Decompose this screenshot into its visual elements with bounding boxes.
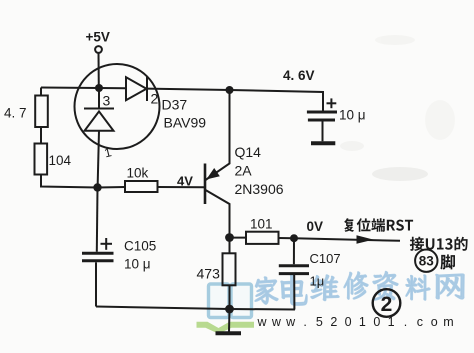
svg-text:0: 0 bbox=[345, 315, 352, 329]
dual diode D37 package circle bbox=[75, 64, 160, 149]
node F junction bbox=[290, 234, 298, 242]
watermark url www.520101.com bbox=[256, 315, 453, 329]
wire 473 to ground node bbox=[229, 285, 231, 309]
wire +5V down to rail bbox=[98, 53, 100, 88]
resistor 101 bbox=[246, 232, 279, 244]
svg-text:2: 2 bbox=[330, 315, 337, 329]
svg-text:104: 104 bbox=[49, 153, 72, 168]
wire top rail right segment bbox=[147, 89, 323, 111]
svg-text:2: 2 bbox=[151, 91, 159, 107]
svg-text:5: 5 bbox=[316, 315, 323, 329]
Q14 emitter bbox=[206, 90, 230, 180]
wire collector node to 473 bbox=[229, 238, 231, 254]
svg-text:.: . bbox=[303, 315, 306, 329]
transistor Q14 base bar bbox=[204, 164, 207, 205]
wire node B to 10k bbox=[98, 186, 126, 189]
ground bar under 10μ bbox=[311, 141, 335, 145]
svg-text:w: w bbox=[285, 315, 296, 329]
svg-text:10k: 10k bbox=[127, 166, 149, 181]
diode D37 lower half (pin1 to pin3) bbox=[84, 108, 114, 110]
wire C105 to bottom rail bbox=[95, 262, 97, 306]
node B junction bbox=[93, 183, 101, 191]
wire 101 to node F bbox=[279, 237, 295, 239]
wire 10k to base bbox=[158, 186, 205, 188]
pin 83 circle bbox=[415, 250, 437, 272]
脚 label bbox=[440, 254, 455, 269]
svg-text:Q14: Q14 bbox=[235, 144, 262, 160]
wire collector node to 101 bbox=[230, 237, 247, 239]
svg-text:101: 101 bbox=[250, 217, 273, 232]
Q14 collector bbox=[206, 190, 230, 238]
svg-text:c: c bbox=[417, 315, 423, 329]
svg-text:473: 473 bbox=[197, 266, 221, 282]
svg-text:+5V: +5V bbox=[86, 30, 110, 45]
resistor 104 bbox=[35, 144, 48, 175]
接U13的 label bbox=[410, 237, 468, 251]
resistor 473 bbox=[223, 253, 236, 285]
svg-text:0V: 0V bbox=[307, 219, 324, 234]
resistor 10k bbox=[125, 181, 158, 192]
svg-text:m: m bbox=[443, 315, 453, 329]
wire pin3 down through diode bbox=[98, 88, 100, 109]
RST arrowhead bbox=[357, 235, 374, 244]
node collector junction bbox=[225, 233, 234, 242]
svg-text:4V: 4V bbox=[177, 174, 193, 189]
svg-text:1: 1 bbox=[359, 315, 366, 329]
wire top rail left segment bbox=[41, 87, 126, 90]
diode D37 right half (pin3 to pin2) bbox=[126, 77, 147, 100]
svg-text:w: w bbox=[271, 315, 282, 329]
wire 104 to node B bbox=[41, 175, 98, 188]
wire C107 to bottom rail bbox=[293, 275, 295, 310]
svg-text:o: o bbox=[431, 315, 438, 329]
wire 10μ to ground bbox=[322, 122, 324, 142]
svg-text:10 μ: 10 μ bbox=[339, 108, 366, 123]
复位端RST label bbox=[344, 218, 413, 232]
bottom rail wire bbox=[96, 307, 295, 310]
svg-text:.: . bbox=[404, 315, 407, 329]
Q14 emitter arrow (PNP) bbox=[208, 169, 220, 179]
svg-text:BAV99: BAV99 bbox=[164, 115, 207, 131]
svg-text:83: 83 bbox=[419, 254, 435, 269]
svg-text:2N3906: 2N3906 bbox=[235, 181, 284, 197]
ground bar bbox=[216, 331, 242, 335]
watermark book logo bbox=[197, 284, 255, 334]
capacitor 10μ plus sign bbox=[327, 102, 337, 104]
wire to ground bbox=[228, 309, 231, 332]
capacitor C107 bbox=[279, 264, 309, 267]
resistor 4.7 bbox=[35, 96, 48, 128]
capacitor 10μ top right bbox=[307, 111, 337, 114]
wire RST output bbox=[294, 238, 400, 241]
svg-text:0: 0 bbox=[373, 315, 380, 329]
scan smudges bbox=[340, 35, 455, 181]
figure number 2 circled bbox=[373, 289, 401, 317]
svg-text:1μ: 1μ bbox=[310, 274, 325, 289]
svg-text:3: 3 bbox=[103, 93, 111, 109]
node junction at pin3 bbox=[95, 84, 103, 92]
svg-text:C107: C107 bbox=[310, 251, 341, 266]
svg-text:w: w bbox=[256, 315, 267, 329]
C105 plus sign bbox=[101, 243, 113, 245]
svg-text:2: 2 bbox=[381, 293, 393, 316]
node ground junction bbox=[225, 305, 234, 314]
+5V terminal bbox=[95, 46, 102, 53]
svg-text:D37: D37 bbox=[162, 97, 188, 113]
wire between resistors bbox=[40, 127, 42, 144]
svg-text:10 μ: 10 μ bbox=[124, 257, 151, 272]
svg-text:4. 6V: 4. 6V bbox=[283, 68, 315, 83]
capacitor C107 wire from node F bbox=[293, 238, 295, 264]
svg-text:C105: C105 bbox=[124, 239, 156, 254]
svg-text:4. 7: 4. 7 bbox=[4, 106, 27, 121]
svg-text:2A: 2A bbox=[235, 163, 253, 179]
capacitor C105 wire from node B bbox=[96, 188, 99, 252]
node emitter junction on rail bbox=[226, 86, 234, 94]
wire rail to R 4.7 bbox=[40, 88, 42, 97]
wire diode to node B bbox=[98, 131, 99, 188]
capacitor C105 bbox=[82, 252, 114, 255]
watermark text 家电维修资料网 bbox=[255, 277, 278, 304]
